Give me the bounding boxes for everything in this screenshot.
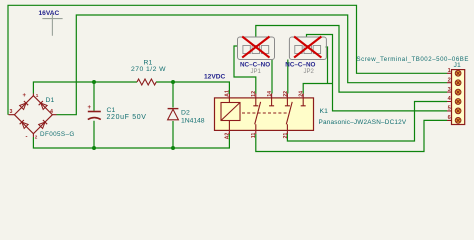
contact ticks xyxy=(253,105,305,107)
wire JP1 NC pin down to relay pin 12 xyxy=(234,46,256,94)
svg-text:+: + xyxy=(88,105,92,111)
wire JP2 NO pin down joining relay pin 24 xyxy=(303,47,332,94)
svg-text:270 1/2 W: 270 1/2 W xyxy=(131,66,166,73)
svg-text:16VAC: 16VAC xyxy=(39,10,60,17)
screw pin 4 xyxy=(455,99,461,105)
wire 12VDC rail: bridge + output, through R1 position, to relay A1 xyxy=(33,82,229,94)
svg-text:12: 12 xyxy=(251,91,257,97)
relay pin stubs top xyxy=(229,94,303,106)
junction C1 bottom xyxy=(92,146,96,150)
junction C1 top xyxy=(92,80,96,84)
svg-text:1: 1 xyxy=(36,93,39,98)
diode SW edge xyxy=(20,120,29,129)
wire 16VAC leg B: bridge pin4 up and over to J1 pin 2 xyxy=(57,15,448,115)
screw pin 3 xyxy=(455,89,461,95)
svg-text:JP1: JP1 xyxy=(251,69,262,75)
svg-text:1: 1 xyxy=(448,68,451,74)
screw pin 2 xyxy=(455,80,461,86)
actuator dashed line xyxy=(242,112,288,114)
svg-text:21: 21 xyxy=(283,133,289,139)
relay K1 body xyxy=(215,90,314,139)
svg-text:D2: D2 xyxy=(181,110,190,117)
wire D2 branch xyxy=(172,82,174,148)
wire C1 branch xyxy=(93,82,95,148)
diode NE edge xyxy=(39,101,48,110)
screw pin 6 xyxy=(455,118,461,124)
screw pin 1 xyxy=(455,70,461,76)
solder jumper JP2 xyxy=(289,37,326,60)
diode D2 xyxy=(168,109,179,120)
wire relay pin 21 to J1 pin 4 xyxy=(287,102,447,142)
cursor crosshair marker xyxy=(42,14,62,36)
junction D2 bottom xyxy=(171,146,175,150)
svg-text:D1: D1 xyxy=(46,97,55,104)
DNP cross JP1 xyxy=(242,37,269,58)
coil xyxy=(221,103,240,121)
svg-text:+: + xyxy=(23,93,27,99)
bridge rectifier D1 xyxy=(9,93,57,141)
screw pin 5 xyxy=(455,108,461,114)
wire JP1 C pin loop to J1 pin 3 xyxy=(256,26,447,93)
solder jumper JP1 xyxy=(238,37,275,60)
wire JP2 C pin loop to J1 pin 5 xyxy=(307,35,448,111)
svg-text:14: 14 xyxy=(267,91,273,97)
svg-text:220uF 50V: 220uF 50V xyxy=(107,114,147,121)
svg-text:A2: A2 xyxy=(225,133,231,140)
svg-text:3: 3 xyxy=(10,109,13,115)
svg-text:1N4148: 1N4148 xyxy=(181,118,205,125)
svg-text:J1: J1 xyxy=(454,62,461,69)
svg-text:24: 24 xyxy=(299,91,305,97)
svg-text:2: 2 xyxy=(35,135,38,140)
svg-text:NC–C–NO: NC–C–NO xyxy=(285,62,315,69)
svg-text:12VDC: 12VDC xyxy=(204,73,225,80)
svg-text:22: 22 xyxy=(283,91,289,97)
capacitor C1 xyxy=(88,105,101,120)
svg-text:K1: K1 xyxy=(320,108,329,115)
svg-text:2: 2 xyxy=(448,77,451,83)
svg-text:3: 3 xyxy=(448,87,451,93)
svg-text:4: 4 xyxy=(50,109,53,115)
svg-text:-: - xyxy=(26,135,28,141)
switch arm pole 1 xyxy=(255,102,261,124)
svg-text:Screw_Terminal_TB002–500–06BE: Screw_Terminal_TB002–500–06BE xyxy=(357,56,470,63)
wire JP2 NC pin down to relay pin 22 xyxy=(287,60,289,94)
diode SE edge xyxy=(39,120,48,129)
wire JP1 NO pin down to relay pin 14 xyxy=(271,60,273,94)
svg-text:6: 6 xyxy=(448,115,451,121)
wire relay pin 11 to J1 pin 6 xyxy=(256,120,447,151)
svg-text:JP2: JP2 xyxy=(304,69,315,75)
junction D2 top xyxy=(171,80,175,84)
relay pin stubs bottom xyxy=(229,121,287,135)
svg-text:NC–C–NO: NC–C–NO xyxy=(240,62,270,69)
resistor R1 xyxy=(137,79,156,85)
wire 16VAC leg A: top rail from left edge to J1 pin 1 xyxy=(8,5,447,114)
svg-text:DF005S–G: DF005S–G xyxy=(40,131,75,138)
wire bottom DC- rail: bridge - to relay A2 xyxy=(33,134,229,148)
svg-text:5: 5 xyxy=(448,106,451,112)
svg-text:Panasonic–JW2ASN–DC12V: Panasonic–JW2ASN–DC12V xyxy=(319,119,407,126)
svg-text:A1: A1 xyxy=(225,90,231,97)
svg-text:11: 11 xyxy=(251,133,257,139)
DNP cross JP2 xyxy=(294,37,321,58)
switch arm pole 2 xyxy=(286,102,292,124)
connector J1 xyxy=(447,68,465,125)
diode NW edge xyxy=(20,101,29,110)
